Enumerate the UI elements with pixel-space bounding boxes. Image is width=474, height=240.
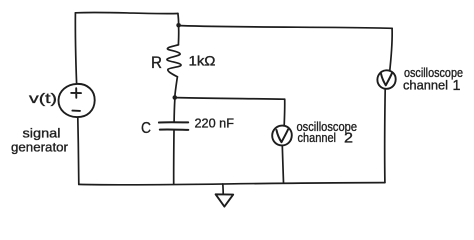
wire left vertical (source top to top-left corner) [75,13,76,84]
voltage source V1 minus sign [72,110,80,112]
wire right vertical lower [384,89,387,182]
svg-text:1: 1 [453,77,461,94]
wire left vertical lower (source bottom to bottom wire) [78,118,79,184]
ground triangle [216,194,234,206]
svg-text:v(t): v(t) [29,90,57,106]
resistor R top lead [177,28,179,45]
node B (junction dot middle) [173,95,178,100]
ground stem [222,184,224,194]
resistor R bottom lead [175,77,178,97]
svg-text:R: R [151,53,162,72]
svg-text:channel: channel [298,130,337,145]
wire bottom horizontal [79,183,385,185]
svg-text:signal: signal [23,126,61,141]
svg-text:C: C [141,120,151,137]
voltmeter U2 circle (oscilloscope channel 2) [272,126,292,146]
svg-text:2: 2 [344,130,353,147]
svg-text:channel: channel [403,78,448,93]
svg-text:220 nF: 220 nF [195,116,235,131]
wire right vertical upper (to voltmeter U1 top) [390,28,392,70]
voltmeter U1 letter V [381,73,392,85]
svg-text:1kΩ: 1kΩ [189,53,216,69]
node A (junction dot top) [176,23,181,28]
voltage source V1 circle (signal generator) [58,84,94,117]
voltmeter U2 letter V [277,130,289,143]
wire top horizontal [75,12,177,13]
voltmeter U1 circle (oscilloscope channel 1) [377,70,395,89]
wire top stub down to node A [177,14,180,26]
voltage source V1 plus sign [71,88,81,98]
wire channel 2 vertical upper [283,99,286,125]
resistor R zigzag body [167,45,181,77]
svg-text:generator: generator [11,140,69,155]
capacitor C bottom lead [173,130,175,184]
capacitor C top lead [173,100,176,122]
wire channel 2 vertical lower [282,146,283,183]
capacitor C top plate [159,121,188,123]
wire node A to right side [181,26,392,29]
capacitor C bottom plate [160,128,189,130]
wire node B to channel 2 branch [177,98,285,100]
